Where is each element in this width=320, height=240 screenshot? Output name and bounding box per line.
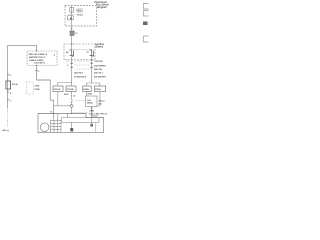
starter assembly outline bbox=[38, 114, 104, 133]
fuse block label bbox=[94, 1, 109, 9]
solenoid contact pad right bbox=[91, 118, 93, 124]
svg-text:MEGA: MEGA bbox=[87, 101, 93, 104]
svg-text:2: 2 bbox=[67, 65, 68, 67]
fuse box B2 bbox=[66, 86, 76, 92]
underhood fuse block U1 (dashed enclosure) bbox=[65, 6, 97, 27]
svg-text:1: 1 bbox=[67, 61, 68, 63]
svg-text:300 A: 300 A bbox=[12, 83, 18, 86]
dashed leader above starter bbox=[73, 112, 88, 114]
dashed leader 3 bbox=[75, 68, 91, 70]
wire from fuse block down bbox=[71, 20, 73, 31]
right edge bracket 3 bbox=[144, 36, 149, 42]
svg-text:342 RD 1: 342 RD 1 bbox=[74, 72, 84, 75]
solenoid winding coils bbox=[51, 120, 62, 133]
svg-text:2: 2 bbox=[38, 71, 40, 73]
wire entry ticks bbox=[53, 113, 55, 115]
wire down from contact 1 bbox=[71, 57, 73, 83]
fuse F1 bbox=[71, 6, 73, 20]
dashed link connector bbox=[75, 100, 86, 102]
svg-text:C: C bbox=[10, 75, 12, 77]
tick on wire bbox=[35, 70, 38, 72]
svg-text:A4 (+): A4 (+) bbox=[3, 129, 9, 132]
megafuse box bbox=[6, 81, 11, 89]
wire below callout bbox=[36, 66, 38, 81]
junction block box bbox=[86, 96, 98, 107]
svg-text:(V8 ONLY): (V8 ONLY) bbox=[35, 63, 45, 65]
splice circle S1 bbox=[70, 105, 73, 108]
svg-text:806 YE 1: 806 YE 1 bbox=[94, 73, 104, 75]
bus wire to splice bbox=[54, 105, 71, 107]
tick with label bbox=[7, 99, 10, 101]
svg-text:F10UA: F10UA bbox=[54, 88, 61, 91]
battery cable callout (dashed) bbox=[27, 51, 57, 66]
right edge dark mark bbox=[143, 22, 148, 26]
svg-text:342 RD/WH: 342 RD/WH bbox=[94, 64, 106, 67]
svg-text:F10UB: F10UB bbox=[67, 89, 74, 91]
fuse box B4 bbox=[95, 86, 106, 92]
wire to starter bbox=[91, 107, 93, 118]
battery line with megafuse bbox=[7, 75, 9, 108]
tick S bbox=[7, 91, 10, 93]
svg-text:S201: S201 bbox=[64, 94, 68, 96]
inner divider bbox=[94, 122, 96, 132]
svg-text:Sol: Sol bbox=[99, 104, 103, 106]
wire b1 down bbox=[57, 92, 59, 106]
svg-text:1035 RD: 1035 RD bbox=[94, 61, 103, 63]
wire down from contact 2 bbox=[91, 57, 93, 84]
ignition switch label bbox=[96, 43, 105, 49]
connector tick marks wire 2 bbox=[90, 62, 93, 64]
wire b3 down bbox=[86, 92, 88, 97]
wire name row 1 bbox=[74, 72, 106, 79]
dashed leader 1 bbox=[75, 60, 91, 62]
ignition switch box S1 (dashed) bbox=[64, 44, 95, 60]
svg-text:FUSE: FUSE bbox=[35, 89, 41, 91]
tee right bbox=[87, 83, 100, 86]
fuse box B3 bbox=[83, 86, 91, 92]
svg-text:Switch: Switch bbox=[96, 46, 104, 49]
connector C1 bbox=[70, 31, 74, 35]
svg-text:BATTERY POS 2: BATTERY POS 2 bbox=[29, 56, 46, 59]
inline connector hooks bbox=[71, 99, 73, 102]
wire stair into starter bbox=[53, 114, 55, 120]
svg-text:C1: C1 bbox=[75, 33, 79, 35]
svg-text:S: S bbox=[10, 93, 12, 95]
wire b1 into starter bbox=[57, 114, 59, 120]
tee left bbox=[58, 83, 72, 87]
svg-text:Relay: Relay bbox=[77, 15, 84, 17]
switch contact 2 bbox=[90, 50, 92, 56]
contact stub and pad bbox=[71, 122, 73, 128]
wire ticks on switch box edges bbox=[71, 43, 73, 45]
right edge bracket 1 bbox=[144, 4, 149, 10]
svg-text:S202: S202 bbox=[88, 94, 92, 96]
svg-text:F5UA: F5UA bbox=[95, 88, 101, 91]
wire labels right column bbox=[94, 61, 106, 71]
dashed leader 2 bbox=[75, 64, 91, 66]
wire label rows bbox=[91, 107, 93, 109]
internal link bbox=[72, 49, 92, 51]
battery feed corner wire bbox=[8, 45, 37, 75]
svg-text:CABLE 2 AWG: CABLE 2 AWG bbox=[29, 59, 44, 62]
solenoid plunger bar bbox=[62, 117, 100, 122]
relay K1 bbox=[68, 16, 74, 20]
svg-text:(Engine): (Engine) bbox=[97, 6, 107, 9]
svg-text:C2: C2 bbox=[86, 52, 89, 54]
stub into plunger bbox=[66, 114, 68, 118]
svg-text:2: 2 bbox=[54, 55, 56, 57]
wire b2 down bbox=[71, 92, 73, 100]
fuse box B1 bbox=[53, 86, 63, 92]
junction block label bbox=[99, 100, 106, 106]
svg-text:C2: C2 bbox=[73, 95, 75, 97]
svg-text:806 YEL: 806 YEL bbox=[94, 69, 103, 71]
svg-text:Starter: Starter bbox=[99, 100, 106, 103]
right edge bracket 2 bbox=[144, 11, 149, 17]
wire connector to switch box bbox=[71, 35, 73, 44]
svg-text:B2: B2 bbox=[66, 52, 69, 54]
svg-text:50 RD/WH 2: 50 RD/WH 2 bbox=[74, 77, 87, 79]
dotted continuation of battery line bbox=[7, 108, 9, 128]
pin labels bbox=[67, 61, 68, 67]
wire staircase to starter bbox=[37, 80, 54, 114]
switch contact 1 bbox=[70, 50, 72, 56]
svg-text:2 RD: 2 RD bbox=[89, 110, 94, 112]
tick C100 bbox=[7, 74, 10, 76]
motor M circle bbox=[40, 123, 49, 132]
dashed divider bbox=[68, 13, 77, 15]
svg-text:2: 2 bbox=[10, 100, 11, 102]
svg-text:F4UA: F4UA bbox=[83, 88, 89, 91]
svg-text:RED 342 2.5MM 18: RED 342 2.5MM 18 bbox=[29, 53, 48, 56]
wire b4 down bbox=[97, 92, 100, 107]
svg-text:250 BK/WH: 250 BK/WH bbox=[94, 77, 106, 79]
svg-text:X50A: X50A bbox=[35, 85, 40, 88]
connector tick marks wire 1 bbox=[70, 62, 73, 64]
wire into switch bbox=[71, 44, 73, 50]
splice callout mini box (dashed) bbox=[27, 82, 34, 94]
